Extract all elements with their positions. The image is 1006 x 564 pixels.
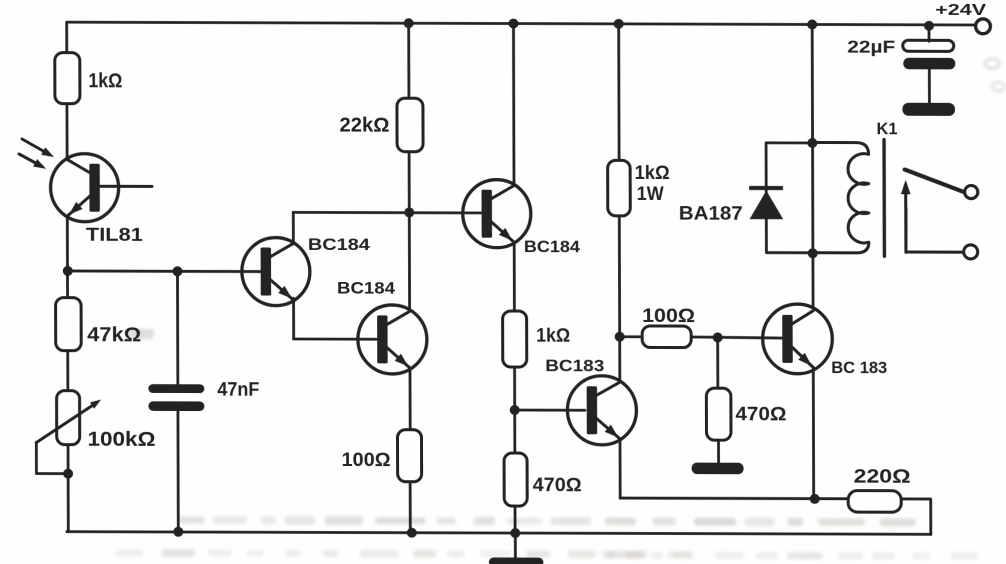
svg-text:470Ω: 470Ω — [735, 403, 786, 425]
svg-text:BC184: BC184 — [337, 279, 396, 297]
svg-text:100kΩ: 100kΩ — [87, 429, 155, 451]
svg-text:1kΩ: 1kΩ — [88, 70, 122, 92]
svg-text:BC183: BC183 — [545, 356, 604, 375]
svg-text:BA187: BA187 — [679, 203, 743, 225]
svg-text:+24V: +24V — [935, 2, 987, 19]
svg-text:TIL81: TIL81 — [86, 224, 143, 245]
svg-text:220Ω: 220Ω — [854, 466, 911, 488]
svg-text:22kΩ: 22kΩ — [339, 115, 389, 137]
svg-text:100Ω: 100Ω — [642, 305, 695, 327]
svg-text:K1: K1 — [876, 120, 897, 138]
svg-text:470Ω: 470Ω — [533, 474, 582, 496]
svg-text:1kΩ: 1kΩ — [635, 162, 670, 184]
svg-text:1W: 1W — [637, 183, 665, 205]
svg-text:BC184: BC184 — [308, 236, 371, 254]
svg-text:100Ω: 100Ω — [342, 449, 391, 471]
svg-text:47nF: 47nF — [217, 380, 259, 401]
svg-text:22µF: 22µF — [847, 37, 895, 57]
svg-text:1kΩ: 1kΩ — [536, 326, 570, 347]
svg-text:BC 183: BC 183 — [831, 359, 887, 377]
svg-text:BC184: BC184 — [524, 238, 581, 256]
svg-text:47kΩ: 47kΩ — [87, 324, 141, 346]
